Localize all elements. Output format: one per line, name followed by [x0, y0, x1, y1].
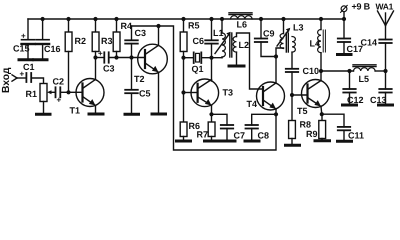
- node rail-L3: [281, 17, 285, 21]
- ground (C16): [34, 58, 47, 61]
- capacitor C7: [221, 125, 245, 141]
- node T3 emitter bus: [209, 112, 213, 116]
- svg-text:+: +: [20, 70, 25, 79]
- ground (R8): [286, 144, 300, 147]
- node T3 base: [181, 90, 185, 94]
- wire T1 collector: [95, 58, 97, 80]
- wire base to T1: [69, 91, 83, 93]
- svg-text:C11: C11: [348, 131, 364, 141]
- wire C9 to T4 collector: [261, 42, 276, 57]
- wire R5 node to T3 base column: [183, 58, 185, 122]
- node R4 bottom: [114, 55, 118, 59]
- wire output line right: [375, 70, 385, 72]
- node rail-L4: [319, 17, 323, 21]
- resistor R4: [113, 19, 132, 58]
- node C13-C14: [383, 69, 387, 73]
- svg-text:L5: L5: [359, 74, 370, 84]
- capacitor C3 feedback: [125, 26, 146, 58]
- ground (R6): [177, 140, 191, 143]
- resistor R2: [65, 19, 86, 92]
- resistor R3: [92, 19, 112, 58]
- node R3-T1 collector: [93, 55, 97, 59]
- ground (C15): [19, 58, 32, 61]
- wire T2 collector riser: [158, 26, 160, 45]
- svg-text:R8: R8: [300, 120, 312, 130]
- svg-text:L3: L3: [293, 23, 304, 33]
- resistor R1 potentiometer: [26, 84, 55, 114]
- capacitor C12: [343, 71, 363, 105]
- node rail-R4: [114, 17, 118, 21]
- svg-text:L1: L1: [213, 28, 224, 38]
- capacitor C15: [13, 19, 35, 59]
- node Вход input label: [1, 67, 12, 93]
- resistor R5: [180, 19, 199, 58]
- node T2 collector: [156, 24, 160, 28]
- node C10-R8-T5 base: [290, 93, 294, 97]
- ground (L2): [229, 65, 244, 68]
- wire T5 collector riser: [320, 71, 322, 81]
- wire Q1 left: [184, 57, 194, 59]
- node T1 base junction: [66, 90, 70, 94]
- capacitor C16: [36, 19, 60, 59]
- svg-text:L2: L2: [239, 40, 250, 50]
- node T4 collector riser: [274, 54, 278, 58]
- inductor L3 secondary: [292, 37, 295, 53]
- node C12: [347, 69, 351, 73]
- transistor T4: [247, 82, 285, 110]
- svg-text:C2: C2: [53, 77, 65, 87]
- wire C6 node to T3 collector: [211, 58, 213, 81]
- svg-text:T4: T4: [247, 99, 258, 109]
- capacitor C17: [338, 19, 363, 54]
- transistor T5: [297, 80, 330, 117]
- wire L2 bottom to ground: [236, 52, 238, 64]
- wire C1 to R1: [31, 78, 43, 84]
- wire collector node to C3: [96, 57, 105, 59]
- transistor T3: [191, 79, 233, 107]
- wire T5 emitter: [320, 107, 323, 115]
- input terminal arrow: [12, 75, 26, 81]
- capacitor C10: [286, 66, 319, 95]
- wire emitter to C11: [322, 114, 344, 127]
- capacitor C13: [370, 71, 392, 105]
- svg-text:C16: C16: [44, 44, 61, 54]
- resistor R6: [180, 121, 200, 140]
- antenna WA1: [376, 1, 394, 25]
- capacitor C8: [246, 125, 270, 141]
- ground (C11): [338, 140, 352, 143]
- svg-text:+: +: [21, 32, 26, 41]
- node C3v/C5: [129, 55, 133, 59]
- wire T2 emitter: [158, 72, 160, 113]
- svg-text:Q1: Q1: [192, 64, 204, 74]
- transistor T1: [70, 79, 105, 116]
- inductor L1 variable: [213, 19, 231, 58]
- capacitor C11: [338, 127, 364, 141]
- svg-text:T2: T2: [134, 74, 145, 84]
- svg-text:C3: C3: [103, 64, 115, 74]
- wire Q1 right: [201, 57, 222, 59]
- svg-text:Вход: Вход: [1, 67, 12, 93]
- capacitor C6: [193, 19, 218, 58]
- svg-text:C7: C7: [234, 131, 246, 141]
- power terminal +9V: [341, 2, 371, 19]
- wire L2 top to T4 base: [237, 33, 264, 89]
- node T5 emitter: [320, 112, 324, 116]
- svg-text:C10: C10: [303, 66, 320, 76]
- node T4 emitter: [274, 112, 278, 116]
- ground (R9): [315, 139, 330, 142]
- ground (C12): [343, 104, 357, 107]
- svg-text:C9: C9: [263, 29, 275, 39]
- wire T3 emitter: [211, 106, 213, 123]
- node C6-Q1-L1: [209, 56, 213, 60]
- capacitor C1: [20, 62, 35, 82]
- wire emitter bus left: [212, 114, 228, 125]
- svg-text:R4: R4: [121, 21, 133, 31]
- node rail-R3: [93, 17, 97, 21]
- wire T1 emitter: [95, 106, 97, 114]
- svg-text:L4: L4: [310, 39, 321, 49]
- wire T4 emitter: [275, 109, 277, 114]
- svg-text:R9: R9: [306, 129, 318, 139]
- svg-text:L6: L6: [237, 20, 248, 30]
- wire T2 collector loop: [132, 26, 277, 150]
- inductor L5: [353, 65, 376, 84]
- node rail-C9: [259, 17, 263, 21]
- node rail-C6: [209, 17, 213, 21]
- inductor L6: [229, 13, 252, 30]
- svg-text:C8: C8: [258, 131, 270, 141]
- svg-text:+: +: [57, 96, 62, 105]
- node L4-T5-output: [319, 69, 323, 73]
- ground (T2): [152, 113, 166, 116]
- svg-text:WA1: WA1: [376, 1, 394, 11]
- node rail-R2: [66, 17, 70, 21]
- ground (T1): [89, 113, 103, 116]
- ground (R1): [37, 113, 51, 116]
- inductor L4: [310, 19, 326, 71]
- svg-text:+9 В: +9 В: [352, 2, 371, 12]
- wire to T5 base: [292, 94, 308, 96]
- wire emitter bus right: [252, 114, 276, 125]
- node rail-C16: [41, 17, 45, 21]
- wire top supply rail: [28, 18, 344, 20]
- ground (C8): [245, 140, 259, 143]
- svg-text:C1: C1: [23, 62, 35, 72]
- svg-text:+: +: [98, 49, 103, 58]
- capacitor C2: [53, 77, 69, 105]
- svg-text:T3: T3: [223, 88, 234, 98]
- transistor T2: [134, 44, 167, 84]
- ground (C17): [338, 53, 352, 56]
- wire base to T3: [184, 92, 198, 94]
- resistor R7: [197, 122, 216, 140]
- svg-text:T1: T1: [70, 106, 81, 116]
- wire L3 secondary to C10: [291, 52, 293, 69]
- wire C3 to T2 base: [109, 57, 145, 59]
- transformer core L1/L2: [230, 33, 232, 57]
- crystal Q1: [192, 52, 204, 74]
- transformer core L3: [286, 33, 288, 52]
- ground (C5): [125, 113, 139, 116]
- ground (R7): [205, 140, 219, 143]
- inductor L2: [233, 37, 249, 53]
- node rail-C17: [342, 17, 346, 21]
- svg-text:C5: C5: [139, 89, 151, 99]
- node R5-Q1: [181, 56, 185, 60]
- svg-text:C6: C6: [193, 36, 205, 46]
- ground (C13): [379, 104, 393, 107]
- svg-text:R3: R3: [101, 36, 113, 46]
- resistor R9: [306, 114, 326, 139]
- svg-text:T5: T5: [297, 106, 308, 116]
- svg-text:C14: C14: [361, 38, 378, 48]
- svg-text:R1: R1: [26, 89, 38, 99]
- node rail-L1: [220, 17, 224, 21]
- svg-text:R7: R7: [197, 130, 209, 140]
- ground (C7): [222, 140, 236, 143]
- resistor R8: [289, 95, 311, 144]
- svg-text:R5: R5: [188, 21, 200, 31]
- wire output line: [321, 70, 354, 72]
- wire T4 collector riser: [276, 48, 284, 83]
- svg-text:R2: R2: [75, 36, 87, 46]
- svg-text:C3: C3: [135, 28, 147, 38]
- inductor L3 primary variable: [277, 19, 304, 49]
- capacitor C3 series: [98, 49, 115, 74]
- svg-text:C15: C15: [13, 44, 30, 54]
- capacitor C5: [125, 58, 150, 114]
- capacitor C14: [361, 26, 392, 72]
- capacitor C9: [255, 19, 275, 42]
- node rail-R5: [181, 17, 185, 21]
